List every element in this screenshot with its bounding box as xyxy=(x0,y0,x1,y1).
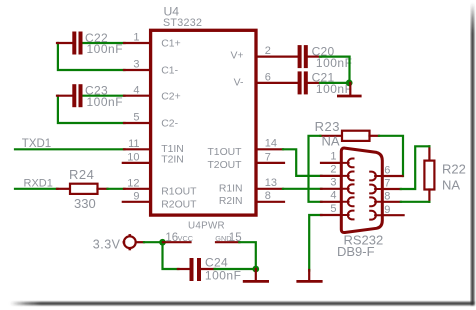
svg-text:12: 12 xyxy=(127,178,139,190)
wire 3.3V to pin16 xyxy=(136,241,144,243)
DB9 contacts left column xyxy=(341,159,353,220)
svg-text:4: 4 xyxy=(133,84,139,96)
svg-text:2: 2 xyxy=(330,164,336,176)
svg-text:5: 5 xyxy=(330,203,336,215)
wire R23 left to DB9 pin4 xyxy=(309,136,322,202)
ground symbol below C24 xyxy=(255,269,257,280)
svg-text:6: 6 xyxy=(265,71,271,83)
svg-text:6: 6 xyxy=(384,165,390,177)
svg-text:100nF: 100nF xyxy=(87,95,124,109)
svg-text:TXD1: TXD1 xyxy=(22,138,51,150)
ground symbol below DB9 xyxy=(308,270,310,280)
svg-text:R1OUT: R1OUT xyxy=(161,187,197,198)
svg-text:8: 8 xyxy=(384,190,390,202)
svg-text:ST3232: ST3232 xyxy=(163,17,202,29)
svg-text:T2IN: T2IN xyxy=(161,155,184,166)
svg-text:3: 3 xyxy=(133,59,139,71)
svg-text:T1IN: T1IN xyxy=(161,144,184,155)
wire DB9 pin5 to ground xyxy=(309,215,321,271)
svg-text:100nF: 100nF xyxy=(87,42,124,56)
wire C24 to ground junction xyxy=(215,268,256,270)
svg-text:2: 2 xyxy=(265,45,271,57)
svg-text:VCC: VCC xyxy=(178,234,193,243)
svg-text:4: 4 xyxy=(330,190,336,202)
wire R22 top to DB9 pin7 xyxy=(401,146,430,189)
capacitor C24 xyxy=(178,268,190,270)
DB9 contacts right column xyxy=(370,172,382,220)
U4 right pin stubs xyxy=(256,57,298,202)
svg-text:V-: V- xyxy=(234,77,244,88)
svg-text:1: 1 xyxy=(330,151,336,163)
DB9 pin numbers right xyxy=(384,165,390,216)
resistor R22 xyxy=(428,146,430,160)
capacitor C22 xyxy=(57,42,72,44)
svg-text:100nF: 100nF xyxy=(205,269,242,283)
svg-text:9: 9 xyxy=(133,191,139,203)
junction node xyxy=(159,239,166,246)
DB9 pin stubs right xyxy=(382,176,404,215)
wire net RXD1 xyxy=(15,188,58,190)
svg-text:11: 11 xyxy=(128,138,139,150)
svg-text:RXD1: RXD1 xyxy=(24,178,53,190)
supply symbol 3.3V xyxy=(124,236,136,248)
svg-text:R22: R22 xyxy=(442,162,466,177)
svg-text:3.3V: 3.3V xyxy=(93,237,121,251)
wire junction down to C24 xyxy=(163,242,179,269)
svg-text:R1IN: R1IN xyxy=(219,183,243,194)
svg-text:13: 13 xyxy=(265,177,277,189)
wire C22 to pin1 xyxy=(83,42,125,44)
svg-text:R24: R24 xyxy=(69,167,94,182)
wire net TXD1 xyxy=(15,148,125,150)
pin 16 VCC xyxy=(163,241,191,243)
wire pin15 to ground xyxy=(239,242,256,269)
svg-text:R2IN: R2IN xyxy=(219,196,243,207)
wire pin13 R1IN to DB9 pin3 xyxy=(283,188,322,190)
svg-text:330: 330 xyxy=(74,196,96,211)
wire R23 right to DB9 pin6 xyxy=(379,136,403,176)
U4 pin names left xyxy=(161,38,197,210)
junction node xyxy=(252,266,259,273)
IC U4 ST3232 body xyxy=(151,30,256,215)
svg-text:9: 9 xyxy=(384,204,390,216)
wire C20 C21 join xyxy=(320,57,350,83)
svg-text:14: 14 xyxy=(265,138,277,150)
svg-text:7: 7 xyxy=(384,178,390,190)
svg-text:DB9-F: DB9-F xyxy=(337,244,375,259)
svg-text:U4PWR: U4PWR xyxy=(188,220,225,231)
svg-text:100nF: 100nF xyxy=(316,56,353,70)
svg-text:R23: R23 xyxy=(315,119,340,134)
wire R24 to pin12 xyxy=(108,188,125,190)
wire R22 bottom to DB9 pin8 xyxy=(401,201,430,203)
svg-text:T1OUT: T1OUT xyxy=(207,147,242,158)
svg-text:C1-: C1- xyxy=(161,66,178,77)
svg-text:C1+: C1+ xyxy=(161,38,180,49)
resistor R24 xyxy=(57,188,70,190)
DB9 pin stubs left xyxy=(321,163,342,215)
capacitor C21 xyxy=(298,71,302,94)
wire C23 net loop xyxy=(58,96,125,123)
U4 pin numbers left xyxy=(127,32,139,203)
svg-text:NA: NA xyxy=(442,177,460,192)
svg-text:C24: C24 xyxy=(205,256,228,270)
wire C22 net loop xyxy=(58,43,125,70)
svg-text:7: 7 xyxy=(265,151,271,163)
capacitor C20 xyxy=(298,45,302,68)
svg-text:5: 5 xyxy=(133,112,139,124)
svg-text:C2-: C2- xyxy=(161,119,178,130)
wire pin14 T1OUT to DB9 pin2 xyxy=(283,149,322,176)
svg-text:R2OUT: R2OUT xyxy=(161,199,197,210)
svg-text:C2+: C2+ xyxy=(161,91,180,102)
svg-text:V+: V+ xyxy=(231,51,244,62)
svg-text:16: 16 xyxy=(165,232,178,244)
resistor R23 xyxy=(320,135,342,137)
pin 15 GND xyxy=(216,241,240,243)
U4 pin numbers right xyxy=(265,45,277,202)
DB9 pin numbers left xyxy=(330,151,336,215)
page shadow right xyxy=(471,3,474,305)
U4 pin names right xyxy=(207,51,243,207)
ground symbol top right xyxy=(349,83,351,95)
U4 left pin stubs xyxy=(123,43,150,202)
page shadow bottom xyxy=(10,302,474,305)
junction node xyxy=(346,80,353,87)
wire C23 to pin4 xyxy=(83,95,125,97)
capacitor C23 xyxy=(57,95,72,97)
svg-text:3: 3 xyxy=(330,177,336,189)
svg-text:NA: NA xyxy=(322,134,340,149)
svg-text:1: 1 xyxy=(133,32,139,44)
connector RS232 DB9-F body xyxy=(341,148,382,232)
svg-text:8: 8 xyxy=(265,190,271,202)
svg-text:10: 10 xyxy=(127,152,139,164)
svg-text:T2OUT: T2OUT xyxy=(207,160,242,171)
